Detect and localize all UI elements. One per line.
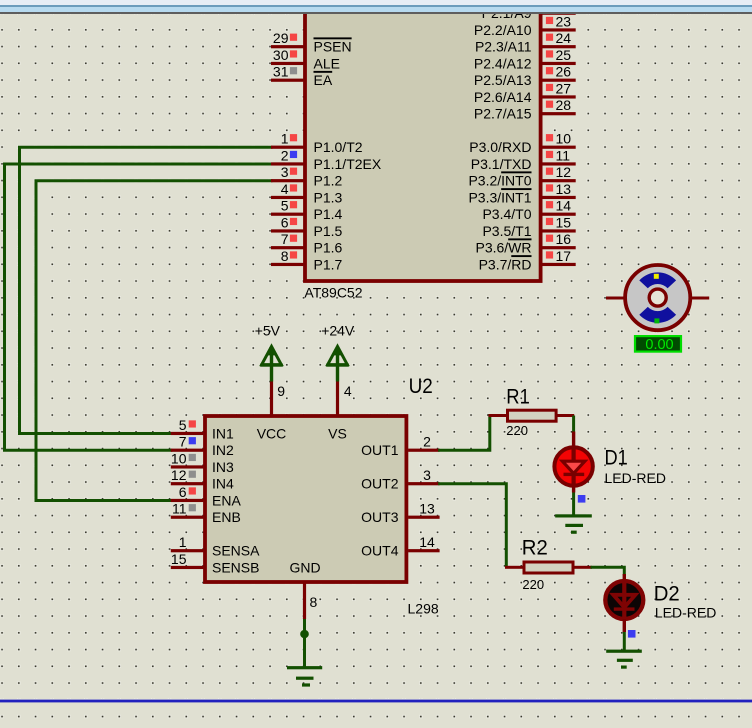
svg-text:13: 13 xyxy=(556,181,572,197)
svg-text:P3.7/RD: P3.7/RD xyxy=(479,256,532,272)
svg-text:R2: R2 xyxy=(522,536,548,560)
svg-text:OUT2: OUT2 xyxy=(361,476,399,492)
svg-text:AT89C52: AT89C52 xyxy=(304,285,362,301)
svg-text:30: 30 xyxy=(273,47,289,63)
svg-text:OUT1: OUT1 xyxy=(361,442,399,458)
svg-text:IN2: IN2 xyxy=(212,442,234,458)
top toolbar strip xyxy=(0,0,752,14)
svg-text:10: 10 xyxy=(171,450,187,466)
svg-text:ENA: ENA xyxy=(212,492,241,508)
svg-text:14: 14 xyxy=(419,534,435,550)
svg-text:16: 16 xyxy=(556,231,572,247)
svg-text:IN1: IN1 xyxy=(212,425,234,441)
svg-text:13: 13 xyxy=(419,501,435,517)
svg-text:8: 8 xyxy=(281,248,289,264)
svg-text:P2.5/A13: P2.5/A13 xyxy=(474,72,532,88)
svg-text:31: 31 xyxy=(273,64,289,80)
U1 pin 4 P1.3 xyxy=(271,181,343,206)
svg-text:ENB: ENB xyxy=(212,509,241,525)
U1 pin 23 P2.2/A10 xyxy=(474,13,576,38)
svg-text:15: 15 xyxy=(556,214,572,230)
svg-text:SENSB: SENSB xyxy=(212,559,259,575)
svg-text:EA: EA xyxy=(314,72,333,88)
svg-text:IN3: IN3 xyxy=(212,459,234,475)
svg-text:D1: D1 xyxy=(605,445,628,469)
svg-text:9: 9 xyxy=(277,383,285,399)
svg-text:4: 4 xyxy=(281,181,289,197)
svg-text:2: 2 xyxy=(281,147,289,163)
ground symbol below D2 xyxy=(606,650,642,669)
U1 pin 15 P3.5/T1 xyxy=(482,214,575,239)
svg-text:LED-RED: LED-RED xyxy=(605,470,666,486)
U1 pin 22 P2.1/A9 xyxy=(482,0,576,21)
wire OUT2 to R2 xyxy=(440,484,507,566)
svg-text:5: 5 xyxy=(281,198,289,214)
wire GND pin to ground xyxy=(303,619,306,668)
wire P1.1 to IN2 xyxy=(5,164,272,450)
svg-text:12: 12 xyxy=(556,164,572,180)
svg-text:3: 3 xyxy=(423,467,431,483)
svg-text:5: 5 xyxy=(179,417,187,433)
svg-text:P3.4/T0: P3.4/T0 xyxy=(482,206,531,222)
U1 pin 13 P3.3/INT1 xyxy=(468,181,575,206)
svg-text:ALE: ALE xyxy=(314,55,340,71)
ground symbol below U2 xyxy=(287,666,322,687)
svg-text:P2.7/A15: P2.7/A15 xyxy=(474,106,532,122)
svg-text:VS: VS xyxy=(328,425,347,441)
svg-text:P1.2: P1.2 xyxy=(314,173,343,189)
svg-text:15: 15 xyxy=(171,551,187,567)
U1 pin 30 ALE xyxy=(271,47,340,71)
svg-text:8: 8 xyxy=(310,594,318,610)
svg-text:L298: L298 xyxy=(408,601,439,617)
motor left terminal xyxy=(606,297,624,300)
svg-text:P1.0/T2: P1.0/T2 xyxy=(314,139,363,155)
D1 cathode stub xyxy=(572,487,575,493)
svg-text:P3.0/RXD: P3.0/RXD xyxy=(469,139,531,155)
svg-text:25: 25 xyxy=(556,47,572,63)
svg-text:17: 17 xyxy=(556,248,572,264)
resistor R2 xyxy=(505,562,592,573)
ground symbol below D1 xyxy=(555,514,592,534)
U1 pin 27 P2.6/A14 xyxy=(474,80,576,105)
D2 cathode stub xyxy=(623,619,626,632)
U2 pin 2 OUT1 xyxy=(361,434,439,459)
U1 pin 24 P2.3/A11 xyxy=(475,30,576,55)
U1 pin 2 P1.1/T2EX xyxy=(271,147,382,172)
U1 pin 17 P3.7/RD xyxy=(479,248,576,273)
U1 pin 1 P1.0/T2 xyxy=(271,131,363,156)
svg-text:D2: D2 xyxy=(654,582,680,606)
svg-text:P3.5/T1: P3.5/T1 xyxy=(482,223,531,239)
state square at D2 cathode xyxy=(628,630,636,638)
motor body xyxy=(625,265,690,330)
svg-text:SENSA: SENSA xyxy=(212,543,260,559)
svg-text:OUT4: OUT4 xyxy=(361,543,399,559)
LED D2 (off) xyxy=(605,581,643,620)
svg-text:+5V: +5V xyxy=(255,323,281,339)
U1 pin 11 P3.1/TXD xyxy=(471,147,576,172)
U2 pin 14 OUT4 xyxy=(361,534,439,559)
svg-text:LED-RED: LED-RED xyxy=(655,605,716,621)
U1 pin 7 P1.6 xyxy=(271,231,343,256)
resistor R1 xyxy=(489,410,575,421)
svg-text:1: 1 xyxy=(281,131,289,147)
U2 pin 15 SENSB xyxy=(171,551,260,576)
svg-text:11: 11 xyxy=(556,147,571,163)
wire R1 to D1 xyxy=(572,416,575,432)
microcontroller U1 AT89C52 body xyxy=(305,0,541,281)
svg-text:29: 29 xyxy=(273,30,289,46)
svg-text:U2: U2 xyxy=(409,374,433,398)
svg-text:P2.2/A10: P2.2/A10 xyxy=(474,22,532,38)
bottom sheet border line xyxy=(0,699,752,702)
svg-text:P1.5: P1.5 xyxy=(314,223,343,239)
U2 pin 5 IN1 xyxy=(171,417,234,442)
U2 pin 1 SENSA xyxy=(171,534,260,559)
svg-text:220: 220 xyxy=(506,423,528,438)
svg-text:3: 3 xyxy=(281,164,289,180)
U2 pin 4 VS with +24V power xyxy=(321,323,355,442)
U2 pin 6 ENA xyxy=(171,484,242,509)
wire P1.0 to IN1 xyxy=(20,147,272,433)
svg-text:VCC: VCC xyxy=(257,425,287,441)
svg-text:P1.6: P1.6 xyxy=(314,240,343,256)
svg-text:P3.6/WR: P3.6/WR xyxy=(475,240,531,256)
svg-text:P3.3/INT1: P3.3/INT1 xyxy=(468,189,531,205)
wire P1.2 to ENA xyxy=(36,181,271,501)
U2 pin 7 IN2 xyxy=(171,434,234,459)
U2 pin 13 OUT3 xyxy=(361,501,439,526)
U1 pin 16 P3.6/WR xyxy=(475,231,575,256)
svg-text:6: 6 xyxy=(179,484,187,500)
svg-text:P2.6/A14: P2.6/A14 xyxy=(474,89,532,105)
U1 pin 28 P2.7/A15 xyxy=(474,97,576,122)
svg-text:2: 2 xyxy=(423,434,431,450)
U1 pin 14 P3.4/T0 xyxy=(482,198,575,223)
svg-text:P3.2/INT0: P3.2/INT0 xyxy=(468,173,531,189)
U2 pin 9 VCC with +5V power xyxy=(255,323,287,442)
wire R2 to D2 xyxy=(592,567,624,574)
svg-text:P2.3/A11: P2.3/A11 xyxy=(475,39,532,55)
svg-text:7: 7 xyxy=(179,434,187,450)
wire OUT1 to R1 xyxy=(440,416,490,451)
svg-text:P1.7: P1.7 xyxy=(314,256,343,272)
svg-text:IN4: IN4 xyxy=(212,476,234,492)
motor speed display xyxy=(635,336,681,353)
svg-text:27: 27 xyxy=(556,80,572,96)
svg-text:OUT3: OUT3 xyxy=(361,509,399,525)
U2 pin 3 OUT2 xyxy=(361,467,439,492)
U1 pin 31 EA xyxy=(271,64,333,89)
state square at D1 cathode xyxy=(578,495,586,503)
svg-text:R1: R1 xyxy=(506,385,530,409)
svg-text:GND: GND xyxy=(289,559,320,575)
U1 pin 26 P2.5/A13 xyxy=(474,64,576,89)
svg-text:7: 7 xyxy=(281,231,289,247)
svg-text:1: 1 xyxy=(179,534,187,550)
U1 pin 3 P1.2 xyxy=(271,164,343,189)
wire D2 to ground xyxy=(623,632,626,651)
driver U2 L298 body xyxy=(205,416,406,582)
U1 pin 29 PSEN xyxy=(271,30,352,55)
U1 pin 10 P3.0/RXD xyxy=(469,131,575,156)
svg-text:P1.4: P1.4 xyxy=(314,206,343,222)
junction dot on GND wire xyxy=(300,630,309,639)
svg-text:P3.1/TXD: P3.1/TXD xyxy=(471,156,532,172)
svg-text:4: 4 xyxy=(344,383,352,399)
U2 pin 10 IN3 xyxy=(171,450,234,475)
svg-text:6: 6 xyxy=(281,214,289,230)
svg-text:0.00: 0.00 xyxy=(645,337,673,353)
svg-text:+24V: +24V xyxy=(321,323,355,339)
U2 pin 11 ENB xyxy=(171,501,241,526)
svg-text:26: 26 xyxy=(556,64,572,80)
svg-text:23: 23 xyxy=(556,13,572,29)
U1 pin 6 P1.5 xyxy=(271,214,343,239)
svg-text:14: 14 xyxy=(556,198,572,214)
svg-text:12: 12 xyxy=(171,467,187,483)
svg-text:P2.4/A12: P2.4/A12 xyxy=(474,55,532,71)
U1 pin 25 P2.4/A12 xyxy=(474,47,576,71)
U1 pin 5 P1.4 xyxy=(271,198,343,223)
wire D1 to ground xyxy=(572,493,575,516)
motor right terminal xyxy=(691,297,709,300)
svg-text:24: 24 xyxy=(556,30,572,46)
U1 pin 12 P3.2/INT0 xyxy=(468,164,575,189)
U1 pin 8 P1.7 xyxy=(271,248,343,273)
D1 anode pin stub xyxy=(572,432,575,449)
svg-text:PSEN: PSEN xyxy=(314,39,352,55)
svg-text:28: 28 xyxy=(556,97,572,113)
svg-text:11: 11 xyxy=(172,501,187,517)
LED D1 (lit) xyxy=(554,447,592,485)
U2 pin 12 IN4 xyxy=(171,467,234,492)
U2 pin 8 GND xyxy=(289,559,320,619)
svg-text:10: 10 xyxy=(556,131,572,147)
D2 anode pin stub xyxy=(623,574,626,582)
svg-text:P1.1/T2EX: P1.1/T2EX xyxy=(314,156,382,172)
svg-text:220: 220 xyxy=(522,577,544,592)
svg-text:P1.3: P1.3 xyxy=(314,189,343,205)
